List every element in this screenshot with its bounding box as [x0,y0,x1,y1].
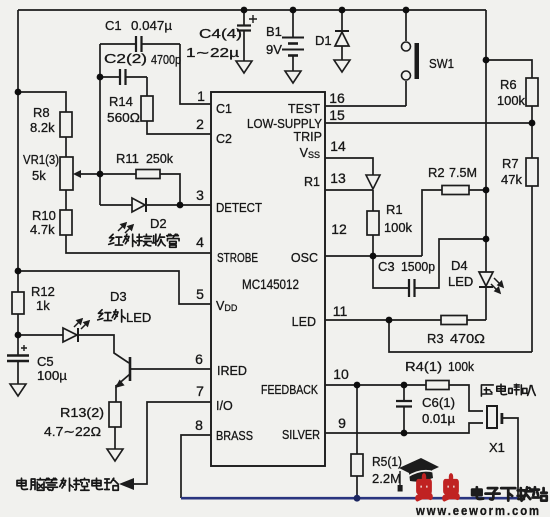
node top bus / B1 [290,7,297,14]
svg-text:7.5M: 7.5M [449,165,477,180]
resistor R4 [426,381,449,390]
svg-text:LED: LED [292,315,316,329]
svg-text:2: 2 [196,116,204,132]
svg-text:47k: 47k [501,172,522,187]
svg-text:R3: R3 [427,331,444,346]
resistor R12 [12,292,24,314]
wire VR1 to R10 [65,190,67,210]
node left bus / D3 branch [15,332,22,339]
svg-text:R5(1): R5(1) [372,454,402,469]
svg-text:11: 11 [333,303,348,319]
wire bottom bus (dark blue) [181,497,518,500]
svg-text:4.7∼22Ω: 4.7∼22Ω [44,424,101,439]
svg-text:FEEDBACK: FEEDBACK [261,383,319,397]
node C1-C2 junction [97,74,104,81]
svg-text:9V: 9V [266,42,282,57]
wire B1 leads [292,10,294,71]
svg-text:R14: R14 [109,94,133,109]
wire X1 right terminal down to bottom bus [503,418,518,498]
svg-text:www.eeworm.com: www.eeworm.com [415,503,541,517]
svg-text:10: 10 [333,366,349,382]
node right bus / R6 [483,57,490,64]
resistor R7 [526,158,538,186]
wire R8 to VR1 [65,137,67,157]
svg-text:250k: 250k [146,151,173,166]
svg-text:7: 7 [196,383,204,399]
node FEEDBACK / R5 [354,382,361,389]
wire C1 left leg down to C2 node and D2 node [99,44,101,205]
diode D3 (IR LED) [63,319,89,342]
svg-text:R12: R12 [31,284,55,299]
wire R7 bottom return to pin11 node [389,320,532,352]
node left bus / VDD feed [15,268,22,275]
svg-text:1500p: 1500p [401,259,435,274]
svg-text:1: 1 [197,88,205,104]
watermark chongchong (red) [417,476,457,498]
wire VDD feed: left bus to pin 5 [18,271,211,304]
ground below B1 [285,71,301,83]
svg-text:6: 6 [195,351,203,367]
wire transistor base to pin 6 IRED [130,368,211,370]
wire transistor emitter to R13 [116,374,130,402]
wire pin 7 I/O to external-control arrow [133,402,211,484]
svg-text:R13(2): R13(2) [60,405,104,420]
diode D2 (IR receiver) [118,198,146,233]
watermark dianzi xiazai zhan (download site) [472,487,547,500]
svg-text:B1: B1 [266,24,282,39]
wire C5 lead [17,355,19,384]
ground below D1 [334,60,350,72]
wire D3 row from left bus [18,334,63,336]
svg-text:C3: C3 [378,259,395,274]
wire C2 row [100,76,147,78]
node top bus / D1 [339,7,346,14]
text yadian laba (piezo speaker) [481,384,535,396]
svg-text:100µ: 100µ [37,368,68,383]
svg-text:DETECT: DETECT [216,201,262,215]
wire C1 top row [100,43,180,45]
svg-text:R1: R1 [304,175,320,189]
svg-text:4: 4 [196,234,204,250]
svg-text:I/O: I/O [216,399,233,413]
capacitor C3 [409,279,415,297]
svg-text:560Ω: 560Ω [107,110,140,125]
piezo transducer X1 [487,406,503,428]
wire SW1 leads [405,10,407,106]
transistor Q1 [115,357,130,388]
svg-text:0.01µ: 0.01µ [422,411,456,426]
svg-text:16: 16 [329,90,345,106]
resistor R8 [60,112,72,137]
svg-text:SILVER: SILVER [282,428,320,442]
wire R13 to ground [114,427,116,449]
capacitor C4 (electrolytic) [237,15,257,31]
node LED pin 11 junction [386,317,393,324]
wire pin 16 TEST to SW1 [211,105,406,107]
node top bus / SW1 [403,7,410,14]
svg-text:LED: LED [448,274,473,289]
svg-text:12: 12 [331,221,347,237]
svg-text:13: 13 [330,170,346,186]
svg-text:100k: 100k [497,93,525,108]
wire pin 11 LED row through R3 to D4 [325,319,486,321]
wire C4 leads [243,10,245,61]
svg-text:C1: C1 [216,102,232,116]
svg-text:15: 15 [329,107,345,123]
potentiometer VR1 [60,157,81,190]
pin numbers [195,88,349,433]
svg-text:D3: D3 [110,289,127,304]
wire pin 9 SILVER row to piezo lower terminal [325,423,483,433]
arrowhead to external control circuit [119,478,134,490]
wire pin 10 FEEDBACK row [325,384,426,386]
svg-text:C4(4): C4(4) [199,26,242,41]
svg-text:5: 5 [196,286,204,302]
wire R2 to right bus [469,189,486,191]
svg-text:0.047µ: 0.047µ [131,18,173,33]
wire R10 to pin 4 STROBE [66,235,211,253]
wire OSC up to R2 [422,190,442,256]
IC U1 MC145012 body [211,92,325,466]
wire right vertical bus to D4 [485,10,487,320]
watermark graduation cap [398,458,439,492]
text diannao deng waikong dianlu (external control circuit) [17,478,118,491]
svg-text:C2: C2 [216,132,232,146]
wire VR1 wiper to R11/D2 node [79,173,100,175]
battery B1 [282,38,304,56]
capacitor C2 [120,69,126,85]
diode D1 [335,31,349,46]
resistor R3 [441,316,467,325]
svg-text:C2(2): C2(2) [104,51,147,66]
svg-text:R11: R11 [116,151,139,166]
svg-text:C1: C1 [105,18,122,33]
capacitor C5 (electrolytic) [7,345,29,361]
wire pin 15 LOW-SUPPLY row [325,122,532,124]
svg-text:9: 9 [338,415,346,431]
svg-text:X1: X1 [489,440,505,455]
wire D1 leads [341,10,343,60]
wire R6 to pin15 node [531,106,533,123]
svg-text:R4(1): R4(1) [405,359,442,374]
wire R14 to pin 2 [147,121,211,134]
IC pin names left [216,102,262,443]
resistor R2 [442,186,469,195]
svg-text:R10: R10 [32,208,56,223]
Vss ground arrow [366,175,380,189]
wire C2 to R14 [146,77,148,96]
switch SW1 [402,42,420,80]
svg-text:C5: C5 [37,354,54,369]
ground below C5 [10,384,26,396]
svg-text:3: 3 [196,187,204,203]
svg-text:D1: D1 [315,33,332,48]
svg-text:470Ω: 470Ω [450,331,485,346]
wire D3 cathode to transistor collector [78,335,129,363]
svg-text:R2: R2 [428,165,445,180]
node R6-R7 / pin 15 [529,120,536,127]
node left bus / R8 branch [15,89,22,96]
svg-text:C6(1): C6(1) [422,395,455,410]
wire C3 loop [373,239,486,288]
svg-text:1k: 1k [36,298,50,313]
svg-text:D2: D2 [150,216,167,231]
wire R1 leads [372,190,374,256]
svg-text:SW1: SW1 [429,56,454,71]
svg-text:TRIP: TRIP [294,130,322,144]
text hongwai jieshouguan (IR receiver) under D2 [109,234,179,247]
wire R8 branch from left bus [18,92,66,112]
svg-text:MC145012: MC145012 [242,276,299,292]
wire pin 12 OSC row [325,255,422,257]
wire left vertical bus [17,10,19,355]
capacitor C6 [396,401,412,407]
wire top supply bus [18,9,486,11]
wire R5 leads [356,385,358,498]
wire R6 branch [486,60,532,78]
LED D4 [479,272,503,293]
resistor R10 [60,210,72,235]
wire pin 8 BRASS down to bottom bus [181,435,211,498]
svg-text:4700p: 4700p [151,52,181,67]
wire R7 leads [531,123,533,352]
svg-text:2.2M: 2.2M [372,471,401,486]
resistor R11 [136,170,160,179]
svg-text:8.2k: 8.2k [30,120,55,135]
svg-text:100k: 100k [384,220,412,235]
svg-text:TEST: TEST [288,102,320,116]
svg-text:R6: R6 [500,77,517,92]
node top bus / C4 [241,7,248,14]
node FEEDBACK / C6 [401,382,408,389]
wire pin 14 Vss to ground arrow [325,158,373,175]
svg-text:R8: R8 [33,105,50,120]
ground below R13 [107,449,123,461]
wire pin 13 R1 row [325,189,373,191]
IC pin names right [247,102,323,442]
svg-text:1∼22µ: 1∼22µ [186,45,240,60]
node bottom bus / R5 [354,495,361,502]
svg-text:14: 14 [330,138,346,154]
resistor R13 [109,402,121,427]
node R11/VR1 wiper [97,171,104,178]
resistor R5 [351,454,363,476]
svg-text:IRED: IRED [217,364,247,378]
svg-text:BRASS: BRASS [216,429,253,443]
svg-text:8: 8 [195,417,203,433]
wire C6 leads [403,385,405,433]
node OSC junction [370,253,377,260]
wire D2 row to pin 3 DETECT [100,204,211,206]
resistor R1 [367,211,379,235]
svg-text:D4: D4 [451,258,468,273]
svg-text:R7: R7 [502,156,519,171]
wire C1 right leg to pin 1 [180,44,211,104]
svg-text:STROBE: STROBE [217,251,258,265]
svg-text:VR1(3): VR1(3) [23,152,59,167]
node DETECT junction [177,202,184,209]
ground below C4 [236,61,252,73]
resistor R14 [141,96,153,121]
resistor R6 [526,78,538,106]
capacitor C1 [136,36,142,52]
node SILVER / C6 [401,430,408,437]
svg-text:R1: R1 [386,202,403,217]
svg-text:OSC: OSC [291,251,318,265]
svg-text:100k: 100k [448,359,474,374]
node right bus / C3 [483,236,490,243]
svg-text:LED: LED [126,310,151,325]
svg-text:LOW-SUPPLY: LOW-SUPPLY [247,117,323,131]
text hongwai LED label for D3 [98,310,126,322]
svg-text:5k: 5k [32,168,46,183]
wire R4 to piezo upper terminal [449,385,483,411]
wire R11 row [100,174,180,205]
svg-text:4.7k: 4.7k [30,222,55,237]
node right bus / R2 [483,187,490,194]
